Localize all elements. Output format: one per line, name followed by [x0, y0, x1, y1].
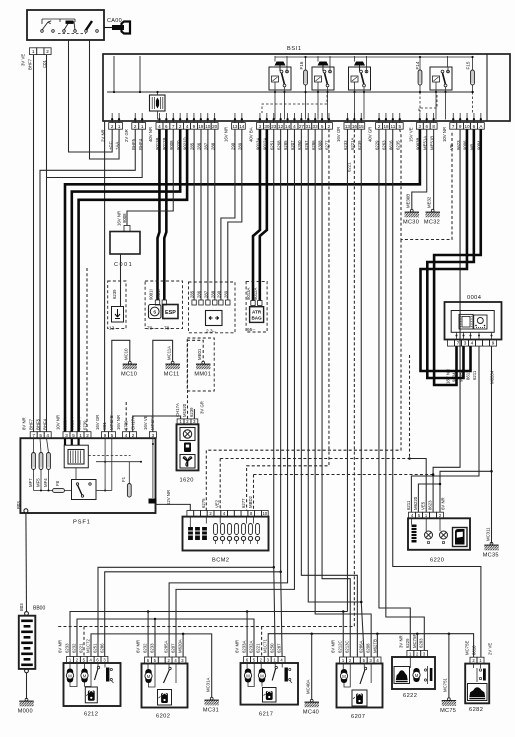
BSI1 pin tick wire 6308 [321, 113, 323, 123]
thick wire 9013B to ESP [158, 129, 160, 300]
svg-text:287: 287 [203, 290, 208, 298]
svg-text:12: 12 [278, 124, 284, 129]
svg-text:MC11A: MC11A [166, 346, 171, 360]
dashed wire VE2 drop to BCM2 [219, 459, 221, 511]
6217 motor 2 [259, 669, 265, 683]
svg-text:9003A: 9003A [63, 417, 68, 430]
thick wire 9013A to airbag [253, 129, 260, 300]
svg-text:7: 7 [172, 124, 175, 129]
stub 6239 at 1620 [193, 409, 195, 419]
fuse F16 [304, 70, 308, 85]
6217 bar element [285, 668, 288, 682]
wire 285 [193, 129, 195, 300]
svg-text:3: 3 [259, 124, 262, 129]
svg-text:6212C: 6212C [338, 640, 343, 653]
BSI1 shunt component [150, 95, 166, 111]
door module 6207 connector [340, 657, 381, 664]
6212 lock icon [85, 687, 97, 703]
PSF1 internal wire C01 [104, 438, 106, 490]
BSI1 connector 40V BA [257, 123, 333, 130]
6207 switch [364, 667, 366, 669]
thick wire 9020 to PSF1 9013A [72, 129, 180, 432]
svg-text:BB00: BB00 [33, 606, 45, 612]
svg-text:VE2: VE2 [215, 499, 220, 508]
wire +AA from CA00 [90, 40, 120, 159]
wire 289 [228, 129, 242, 300]
dashed wire 6221A net [58, 129, 355, 626]
drop MC40 [311, 634, 313, 700]
svg-text:5: 5 [72, 433, 75, 438]
svg-text:4: 4 [125, 433, 128, 438]
svg-text:MC10: MC10 [124, 348, 129, 360]
6207 motor [341, 669, 347, 683]
BSI1 pin tick wire 9020 [179, 113, 181, 123]
ABS icon [149, 305, 162, 319]
svg-text:2: 2 [132, 433, 135, 438]
wire 6229 to 6222 [379, 129, 410, 650]
wire CH17A PSF1 to 1620 [133, 416, 181, 432]
dashed wire VE2 to VE5 [220, 458, 409, 460]
svg-text:9: 9 [104, 433, 107, 438]
airbag box pin cells [251, 301, 255, 306]
svg-text:MC40: MC40 [303, 709, 319, 715]
wire run 6268 to 6212 pin6 [105, 572, 281, 657]
svg-text:6287: 6287 [277, 643, 282, 653]
svg-text:S: S [153, 310, 156, 315]
BSI1 relay 2 [312, 67, 334, 90]
svg-text:6V NR: 6V NR [441, 497, 446, 510]
svg-text:5: 5 [39, 433, 42, 438]
run B wire 6213 net [77, 619, 254, 657]
run A wire 6212 net [70, 612, 347, 657]
6220 striped bar [412, 525, 417, 543]
fuse F14 [418, 70, 422, 85]
6282 contact [473, 664, 475, 668]
wire 6623 8623 to 6220 [433, 129, 460, 512]
svg-text:19: 19 [198, 124, 204, 129]
svg-text:8623: 8623 [428, 500, 433, 510]
svg-text:MF5: MF5 [36, 478, 41, 487]
wire 6251 6250 [274, 129, 275, 656]
BSI1 pin tick wire 6229 [378, 113, 380, 123]
svg-text:20: 20 [212, 124, 218, 129]
6222 heater element [427, 666, 429, 684]
svg-text:MC40A: MC40A [305, 680, 310, 694]
svg-text:16V OR: 16V OR [336, 127, 341, 142]
BSI1 pin tick wire 9012A [266, 113, 268, 123]
svg-text:6282: 6282 [469, 707, 483, 713]
PSF1 relay block hatched [64, 445, 88, 468]
svg-text:2.3--: 2.3-- [206, 329, 216, 335]
1620 battery icon [184, 443, 191, 453]
PSF1 dashed internal [88, 455, 130, 457]
PSF1 fuse output bus [33, 470, 35, 491]
PSF1 internal horizontal [96, 461, 141, 463]
wire 6350 to 6207 [301, 129, 357, 657]
svg-text:F16: F16 [299, 61, 304, 69]
thick wire 9012B to ESP [164, 129, 166, 300]
svg-text:MC30: MC30 [403, 219, 419, 225]
ESP box pin cells [155, 300, 159, 305]
BSI1 pin tick wire 6277 [328, 113, 330, 123]
BSI1 pin tick wire ME51A [426, 113, 428, 123]
dashed drop 6221 to 6217 [261, 627, 263, 657]
svg-text:23: 23 [271, 124, 277, 129]
svg-text:6: 6 [165, 124, 168, 129]
dashed wire 6235 VE loop [400, 129, 452, 239]
display unit 0004 box [445, 302, 502, 340]
wire 6207 to 6202 [176, 129, 294, 657]
BSI1 pin tick wire 285 [193, 113, 195, 123]
svg-text:18: 18 [383, 124, 389, 129]
svg-text:3: 3 [419, 124, 422, 129]
wire BB00 to M000 [26, 673, 28, 699]
svg-text:6212: 6212 [84, 712, 98, 718]
drop to 6207 pin1 [342, 612, 344, 658]
connector C01 pins 1-2 under CA00 [30, 48, 52, 55]
CA00 switch contact 3 [85, 30, 88, 33]
svg-text:M: M [260, 673, 264, 678]
box 23 pin 285 [192, 300, 196, 305]
sensor icon box 12 [112, 307, 124, 323]
wire 6268 6287 [281, 129, 282, 656]
svg-text:78--: 78-- [164, 326, 173, 332]
door module 6202 connector [145, 657, 186, 664]
BSI1 connector 2V GR [132, 123, 146, 130]
svg-text:MC32: MC32 [424, 219, 440, 225]
PSF1 internal wire MPSFB [111, 438, 113, 490]
BSI1 pin tick wire 9013B [158, 113, 160, 123]
svg-text:M: M [246, 673, 250, 678]
BSI1 pin tick wire 6263 [385, 113, 387, 123]
BSI1 connector 16V OR [344, 123, 365, 130]
BSI1 internal bus [107, 91, 474, 93]
svg-text:6233: 6233 [150, 643, 155, 653]
wire C01 to PSF1 [104, 121, 106, 432]
6217 lock icon [263, 688, 277, 703]
wire 6285 to 6202 [169, 129, 287, 657]
6202 motor [145, 669, 151, 683]
svg-text:PSF1: PSF1 [73, 520, 91, 526]
PSF1 connector 8V NR [30, 432, 51, 439]
svg-text:1: 1 [32, 49, 35, 54]
BSI1 pin tick wire 290 [234, 113, 236, 123]
dashed drop 6221 to 6212 [83, 627, 85, 657]
svg-text:10: 10 [262, 511, 267, 516]
svg-text:16: 16 [352, 124, 358, 129]
svg-text:70--: 70-- [147, 326, 156, 332]
svg-text:6202: 6202 [156, 714, 170, 720]
svg-text:6213C: 6213C [345, 640, 350, 653]
PSF1 connector 16V GR [102, 432, 116, 439]
svg-text:7: 7 [452, 124, 455, 129]
BSI1 pin tick wire 9013A [259, 113, 261, 123]
svg-text:3V VE: 3V VE [21, 54, 26, 66]
BSI1 pin tick wire BHF5 [134, 113, 136, 123]
wire 290 [221, 129, 235, 300]
wire CA00 pin2 [46, 55, 48, 178]
svg-text:16V GR: 16V GR [95, 415, 100, 430]
wire BHF4 L-bend [47, 129, 143, 432]
wire M0204 to MC35 [491, 346, 493, 543]
BSI1 internal wire [113, 56, 115, 92]
svg-text:BHF5: BHF5 [36, 418, 41, 430]
wire 9008 to C001 [127, 129, 173, 225]
svg-text:18V NR: 18V NR [446, 369, 451, 384]
svg-text:M6220: M6220 [413, 496, 418, 510]
svg-text:6V MR: 6V MR [331, 640, 336, 653]
svg-text:10V NR: 10V NR [56, 415, 61, 430]
svg-text:9: 9 [193, 124, 196, 129]
svg-text:16V VE: 16V VE [143, 415, 148, 430]
BSI1 pin tick wire 6235 [399, 113, 401, 123]
svg-text:ATR: ATR [252, 309, 262, 314]
fuse MF7 [32, 453, 36, 470]
BCM2 internal feeds [189, 517, 191, 527]
box 23 pin 287 [206, 300, 210, 305]
svg-text:7: 7 [32, 433, 35, 438]
svg-text:F1: F1 [121, 476, 126, 482]
fuse F15 [471, 70, 475, 85]
dashed box 23 [189, 282, 236, 333]
svg-text:2: 2 [328, 124, 331, 129]
BSI1 pin tick wire +CC [111, 113, 113, 123]
battery BB00 [25, 612, 29, 616]
BCM2 box [183, 517, 269, 551]
svg-text:40V GR: 40V GR [368, 127, 373, 142]
BSI1 pin tick wire 287 [207, 113, 209, 123]
svg-text:B03: B03 [19, 603, 24, 611]
svg-text:MC75F: MC75F [412, 634, 417, 648]
ground MC30 [405, 209, 419, 217]
module 6222 connector [407, 651, 428, 658]
svg-text:9013A: 9013A [246, 287, 251, 300]
module 6222 box [392, 657, 435, 689]
svg-text:4: 4 [46, 433, 49, 438]
svg-text:VE5: VE5 [421, 501, 426, 510]
ground MC10 [123, 361, 137, 369]
door module 6217 box [241, 663, 299, 705]
svg-text:M1C72: M1C72 [86, 639, 91, 653]
svg-text:14: 14 [239, 124, 245, 129]
svg-text:BHF7: BHF7 [29, 418, 34, 430]
svg-text:6V MR: 6V MR [235, 640, 240, 653]
svg-text:MC75: MC75 [440, 708, 456, 714]
PSF1 relay 2 [72, 480, 97, 500]
svg-text:MF7: MF7 [28, 478, 33, 487]
BSI1 top feed wires [274, 56, 276, 62]
svg-text:13: 13 [232, 124, 238, 129]
svg-text:M000: M000 [18, 708, 33, 714]
svg-text:2: 2 [179, 124, 182, 129]
svg-text:31: 31 [306, 124, 312, 129]
CA00 internal dashed link [58, 33, 86, 35]
svg-text:1: 1 [118, 124, 121, 129]
svg-text:9012A: 9012A [253, 287, 258, 300]
svg-text:2V VE: 2V VE [488, 643, 493, 655]
svg-text:3: 3 [152, 433, 155, 438]
svg-text:MC35: MC35 [483, 552, 499, 558]
door module 6202 box [142, 664, 188, 708]
PSF1 engine fusebox [20, 438, 155, 513]
dashed wire 6739 into PSF1 [86, 268, 88, 432]
BSI1 pin tick wire ME51B [433, 113, 435, 123]
svg-text:9001I: 9001I [149, 289, 154, 300]
wire 287 [207, 129, 209, 300]
svg-text:9: 9 [492, 341, 495, 346]
svg-text:MF4: MF4 [43, 478, 48, 487]
ESP icon [163, 305, 178, 319]
wire 6239 from BSI down [361, 129, 364, 657]
BSI1 relay 4 [430, 67, 452, 90]
svg-text:3: 3 [65, 433, 68, 438]
svg-text:3: 3 [464, 341, 467, 346]
svg-text:6: 6 [473, 124, 476, 129]
svg-text:MC31: MC31 [203, 707, 219, 713]
svg-text:M: M [415, 673, 419, 678]
door module 6212 box [64, 663, 121, 706]
svg-text:6250: 6250 [270, 643, 275, 653]
drop to 6217 pin1 [246, 612, 248, 657]
BSI1 pin tick wire 9021D [186, 113, 188, 123]
drop MC75 [448, 634, 450, 698]
svg-text:2: 2 [134, 124, 137, 129]
wire +CC from CA00 [69, 40, 113, 152]
svg-text:6232: 6232 [143, 643, 148, 653]
0004 display icon [451, 311, 494, 333]
wire MPSFB to MC10 [112, 340, 130, 431]
ground M000 [19, 698, 33, 706]
svg-text:12--: 12-- [109, 326, 118, 332]
BSI1 internal divider [486, 54, 488, 121]
wire 6239 from C001 to box 12 [120, 254, 122, 307]
svg-text:11: 11 [391, 124, 396, 129]
svg-text:33: 33 [313, 124, 319, 129]
BSI1 pin tick wire +AA [118, 113, 120, 123]
svg-text:1: 1 [141, 124, 144, 129]
svg-text:6: 6 [426, 124, 429, 129]
6217 internal wires [246, 663, 248, 669]
6220 connector cells [409, 512, 444, 518]
svg-text:6207: 6207 [171, 643, 176, 653]
arrows icon box 23 [206, 311, 223, 326]
dashed box around MM01 [187, 338, 214, 391]
svg-text:M1C71: M1C71 [263, 639, 268, 653]
wire PSF1 to BCM2 12V NR [156, 504, 191, 510]
BSI1 relay 3 [349, 67, 371, 90]
svg-text:6211: 6211 [406, 500, 411, 510]
svg-text:BSI1: BSI1 [287, 46, 302, 52]
svg-text:BHF4: BHF4 [43, 418, 48, 430]
CA00 key symbol [104, 27, 114, 29]
svg-text:4: 4 [293, 124, 296, 129]
svg-text:285: 285 [190, 290, 195, 298]
BSI1 pin tick wire 9003B [419, 113, 421, 123]
svg-text:8: 8 [432, 124, 435, 129]
svg-text:3V GR: 3V GR [200, 401, 205, 414]
svg-text:ME30B: ME30B [406, 194, 411, 208]
svg-text:286: 286 [197, 290, 202, 298]
svg-text:6283: 6283 [419, 638, 424, 648]
BSI1 pin tick wire 288 [214, 113, 216, 123]
svg-text:14: 14 [285, 124, 291, 129]
svg-text:6V MR: 6V MR [136, 640, 141, 653]
svg-text:6239: 6239 [112, 289, 117, 299]
svg-text:CA00: CA00 [107, 18, 122, 24]
fuse F1 [127, 484, 131, 498]
svg-text:BAG: BAG [251, 315, 262, 320]
svg-text:2: 2 [378, 124, 381, 129]
svg-text:8610: 8610 [471, 645, 476, 655]
svg-text:40V BA: 40V BA [249, 127, 254, 142]
ground MC75 [442, 698, 456, 706]
svg-text:8V NR: 8V NR [22, 417, 27, 430]
ground MC11 [165, 361, 179, 369]
wire 8616 8610 to 6282 [393, 129, 481, 657]
svg-text:5: 5 [321, 124, 324, 129]
drop to 6202 pin1 [147, 612, 149, 658]
svg-text:BCM2: BCM2 [212, 558, 230, 564]
BCM2 connector cells [187, 511, 268, 517]
svg-text:290: 290 [216, 290, 221, 298]
svg-text:9012A: 9012A [77, 417, 82, 430]
BSI1 pin tick wire 6251 [273, 113, 275, 123]
wire 6286 to 6207 [315, 129, 371, 657]
BSI1 pin tick wire 6350 [300, 113, 302, 123]
svg-text:B03: B03 [16, 501, 21, 509]
svg-text:13: 13 [345, 124, 351, 129]
svg-text:MM01: MM01 [194, 371, 211, 377]
dashed wire MBD2 [254, 474, 434, 476]
BSI1 pin tick wire 9004 [480, 113, 482, 123]
PSF1 thick pins into relay block [64, 438, 66, 445]
svg-text:F8: F8 [55, 480, 60, 486]
svg-text:40V NR: 40V NR [148, 127, 153, 142]
door module 6217 connector [244, 657, 285, 664]
svg-text:F15: F15 [466, 61, 471, 69]
6220 lamp 2 [440, 531, 448, 539]
svg-text:1620: 1620 [180, 478, 194, 484]
6207 lock icon [352, 690, 367, 706]
thick wire to 0004 pin2 [427, 129, 474, 378]
BSI1 pin tick wire 9012B [165, 113, 167, 123]
6202 switch [169, 667, 171, 669]
PSF1 internal ground symbol [152, 438, 154, 498]
svg-text:2V GR: 2V GR [124, 129, 129, 142]
BSI1 connector 40V NR [156, 123, 218, 130]
dashed wire 6235 down to BCM2 6275 [206, 240, 401, 511]
ground MC31 [205, 697, 219, 705]
svg-text:M1620: M1620 [182, 403, 187, 417]
svg-text:6233: 6233 [65, 643, 70, 653]
BSI1 pin tick wire 9006 [466, 113, 468, 123]
CA00 internal switches [42, 19, 75, 24]
wire ME51B to MC32 [433, 129, 435, 209]
ground MC35 [484, 542, 498, 550]
svg-text:288: 288 [210, 290, 215, 298]
svg-text:27: 27 [299, 124, 305, 129]
svg-text:6277: 6277 [241, 498, 246, 508]
6222 motor [413, 668, 419, 682]
svg-text:BHF7: BHF7 [28, 58, 33, 70]
BSI1 connector 40V GR [376, 123, 404, 130]
svg-text:ME01: ME01 [197, 348, 202, 360]
svg-text:6220: 6220 [430, 558, 444, 564]
svg-text:M62TB: M62TB [373, 639, 378, 653]
svg-text:6232: 6232 [72, 643, 77, 653]
svg-text:6251: 6251 [93, 643, 98, 653]
wire 288 [214, 129, 216, 300]
